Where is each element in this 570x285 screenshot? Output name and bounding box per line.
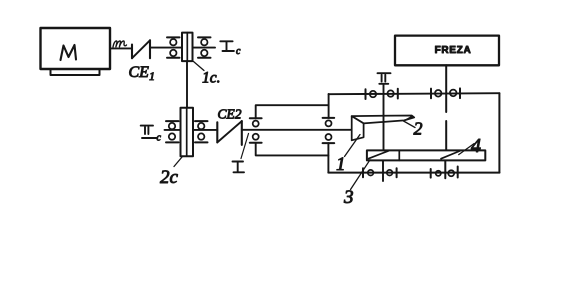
svg-text:4: 4 [471, 135, 481, 157]
wire clutch to gearblock [150, 47, 182, 49]
gear pair on bottom shaft left [362, 168, 364, 177]
gear pair right of block 2c [195, 120, 208, 122]
svg-text:1c.: 1c. [202, 70, 221, 87]
shaft stub right of block [193, 47, 216, 49]
gear pair left of block 2c [166, 120, 179, 122]
motor base [51, 70, 100, 76]
bottom shaft [328, 172, 499, 174]
gear pair right of block 1c [198, 36, 211, 38]
sliding cluster gear pair A on shaft I [250, 117, 262, 119]
gear pair on bottom shaft right [430, 169, 432, 178]
svg-text:c: c [157, 133, 162, 144]
clutch CE2 [216, 122, 218, 142]
svg-text:2c: 2c [160, 167, 179, 188]
leader to 1c. [194, 62, 205, 71]
clutch CE1 [131, 45, 133, 59]
motor M box [41, 28, 111, 69]
FREZA box [395, 36, 499, 66]
label 2 with leader [404, 121, 416, 128]
wire motor to clutch [110, 47, 132, 49]
bracket 1 [352, 116, 364, 140]
slide bar 4 [367, 150, 485, 160]
label I with leader [241, 134, 249, 159]
sliding cluster gear pair B on shaft I [323, 117, 335, 119]
long vertical through gear 2 [382, 85, 385, 182]
cluster frame bottom [256, 143, 329, 156]
vertical shaft between blocks [186, 61, 188, 108]
svg-text:c: c [236, 46, 241, 57]
svg-text:1: 1 [336, 154, 346, 175]
wedge 3 hatch [369, 151, 389, 159]
svg-text:3: 3 [343, 187, 354, 208]
label 1 with leader [345, 135, 361, 157]
gear pair on shaft II left [365, 89, 367, 99]
svg-text:2: 2 [414, 119, 423, 139]
spindle vertical from FREZA [444, 65, 447, 178]
shaft I [242, 129, 352, 131]
svg-text:CE: CE [129, 64, 150, 81]
label II [378, 73, 391, 84]
motor M label [61, 45, 77, 60]
right frame vertical [498, 93, 500, 172]
svg-text:CE2: CE2 [218, 107, 242, 122]
label Ic [220, 41, 234, 51]
label 4 with leader [459, 144, 474, 155]
label m (flexible coupling) [113, 41, 126, 47]
svg-text:FREZA: FREZA [435, 45, 472, 56]
leader to 2c [174, 157, 182, 167]
shaft II [329, 93, 500, 94]
gear block 1c [182, 33, 193, 62]
label IIc [141, 126, 157, 138]
cluster frame top [256, 105, 329, 118]
label 3 with leader [351, 160, 371, 190]
wedge in bar 4 [441, 151, 460, 159]
gear pair on shaft II right [430, 89, 432, 99]
svg-text:1: 1 [149, 69, 155, 83]
divider in bar [398, 150, 400, 160]
gear block 2c [181, 108, 194, 157]
gear pair left of block 1c [167, 36, 180, 38]
lever 2 (pointer bar) [352, 116, 415, 124]
